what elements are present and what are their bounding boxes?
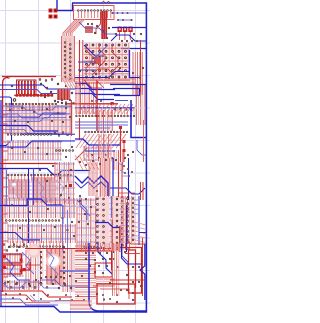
- wire blue y108: [75, 107, 135, 109]
- IC U1 pad row: [77, 9, 112, 11]
- IC U1 outline: [74, 6, 115, 20]
- pink diag into band: [61, 76, 78, 88]
- pads cluster x124-132: [123, 165, 133, 177]
- wire texture x75-95 y245-300: [75, 246, 96, 299]
- wire texture x96-114 y278-289: [96, 279, 114, 286]
- red patch x58-70: [57, 89, 70, 100]
- wire red y193 right: [118, 192, 135, 194]
- red loops right: [120, 248, 142, 294]
- red horiz y280 right: [110, 279, 145, 281]
- via double column: [64, 41, 66, 78]
- red angle bl: [22, 262, 30, 270]
- pin header matrix: [85, 44, 127, 79]
- via col x117: [116, 198, 118, 250]
- blue zigzag over band: [46, 250, 58, 282]
- wire blue bottom-left rail: [0, 307, 98, 313]
- wire red y248 mid: [25, 248, 112, 250]
- red thin y302: [0, 302, 50, 304]
- pink diagonals x75-95 y155-175: [75, 155, 99, 170]
- pads bottom band: [5, 293, 85, 301]
- red serpentines in matrix: [86, 44, 92, 75]
- U6 stubs: [76, 109, 134, 115]
- wire blue thin y20: [118, 19, 132, 21]
- wire blue thin x111: [111, 196, 113, 218]
- wire blue border bottom: [89, 243, 146, 311]
- via col x122: [121, 200, 123, 246]
- pad at rail corner: [7, 76, 9, 78]
- wire blue jog y34-40 right: [111, 35, 146, 41]
- weave field y105-134: [6, 105, 72, 134]
- IC U6 pad row y116: [75, 115, 135, 117]
- pink band with hole: [46, 248, 62, 285]
- wire blue vert x28: [28, 168, 30, 243]
- vias band y80-100: [11, 78, 73, 104]
- weave y224-243: [8, 224, 76, 243]
- vias under matrix: [79, 67, 144, 79]
- wire red vert x79-80: [79, 118, 81, 140]
- vias bottom left: [7, 275, 83, 287]
- vias in field: [9, 107, 71, 123]
- weave x55-75 y162-205: [55, 162, 75, 204]
- wire red thick right x140: [140, 40, 142, 92]
- wire blue y101 right: [115, 100, 128, 102]
- wire blue y144 jog: [75, 139, 121, 145]
- wire red y163: [0, 163, 58, 165]
- pink zone 2 texture: [33, 178, 52, 202]
- via col x97: [96, 198, 98, 250]
- blue jogs in field: [0, 106, 72, 110]
- wire blue zigzag bl: [6, 258, 30, 280]
- red weave in matrix: [84, 43, 130, 80]
- wire blue y84 right: [110, 84, 146, 86]
- via col x103: [102, 198, 104, 250]
- weave field y140-160: [8, 140, 62, 160]
- blue vert x137 bend: [137, 140, 146, 155]
- vias y146-160 right: [91, 151, 134, 159]
- wire blue x144 jog: [140, 244, 145, 300]
- wire blue band y85: [0, 85, 75, 89]
- blue thin verts x62 x67: [62, 205, 64, 250]
- wire blue y280 jog: [40, 280, 88, 286]
- U2 stubs down: [6, 105, 56, 111]
- wire blue y117: [0, 113, 66, 117]
- red fan right cols: [134, 222, 146, 243]
- wire blue vert x128: [128, 158, 130, 200]
- wire blue y143 jog: [0, 141, 75, 147]
- white hole in zone: [12, 183, 16, 187]
- wire blue y168 jog: [0, 169, 90, 175]
- wire texture x75-96 y198-250: [77, 198, 96, 250]
- wire blue rail y48: [121, 48, 146, 50]
- pink bundle into bottom right: [77, 243, 88, 252]
- pink h-thins y79-84: [75, 79, 135, 83]
- wire red verts x120 x124: [120, 128, 122, 162]
- vias bottom right: [96, 282, 142, 312]
- red square bl2: [23, 268, 26, 271]
- wire blue elbow y97: [0, 97, 12, 146]
- pale band x62-75: [61, 36, 75, 82]
- wire blue left rail: [0, 100, 2, 307]
- wire blue staircase y205: [0, 199, 62, 206]
- red box mid-bottom: [95, 263, 112, 277]
- via cluster below U1: [87, 23, 110, 34]
- pink zone left: [8, 179, 30, 200]
- wire red y295 step: [0, 295, 58, 301]
- pad row y247 mid: [83, 246, 102, 248]
- pad row y175: [7, 174, 72, 176]
- pink zone left texture: [9, 180, 28, 199]
- pad col x41: [40, 251, 42, 284]
- purple stubs right cols: [134, 200, 139, 214]
- pale strip B: [113, 197, 120, 249]
- wire blue vert x33: [33, 168, 35, 205]
- vias y200-244: [11, 204, 56, 231]
- pads right of row2: [54, 131, 69, 136]
- ladder pads bottom: [18, 94, 35, 96]
- red square x70 y185: [69, 184, 72, 187]
- pads y20 right: [117, 19, 133, 21]
- wire red y104: [66, 103, 118, 105]
- wire red vert x97: [96, 81, 98, 131]
- red box A: [3, 254, 22, 263]
- via row y13 right: [111, 12, 128, 14]
- wire bundle from U1 down-left: [63, 19, 85, 40]
- wire blue wave 2: [75, 182, 106, 188]
- wire texture x136-145 y85-125: [137, 85, 145, 125]
- stubs row y175: [8, 176, 71, 181]
- IC U1 stubs: [78, 12, 111, 18]
- wire red x71 vertical: [71, 100, 73, 136]
- pads trio y101: [91, 100, 102, 102]
- red bend bottom right cols: [128, 240, 147, 244]
- wire blue y188 right: [110, 188, 145, 194]
- wire blue y126 jog: [0, 126, 58, 132]
- wire red y300: [55, 300, 85, 302]
- blue diagonals left of U4: [77, 200, 87, 220]
- pads right of row1: [57, 99, 75, 104]
- wire red bundle x133-143: [133, 52, 142, 95]
- red square pads bl: [3, 255, 6, 258]
- red loop inner: [100, 289, 129, 299]
- wire texture x26-45 y250-286: [26, 250, 43, 286]
- stripes x98-112 y134-162: [99, 134, 111, 162]
- vias left of U4: [78, 200, 92, 225]
- component ladder RN1 frame: [17, 80, 37, 95]
- wire blue diag NE: [95, 45, 108, 58]
- pad row y246: [9, 245, 64, 247]
- mount hole ring: [46, 254, 61, 269]
- wire red y291 step: [0, 291, 72, 297]
- pale disc: [27, 244, 41, 258]
- wire red x142 low: [142, 238, 144, 296]
- wire red top of block: [2, 76, 56, 78]
- wire blue staircase br: [98, 243, 112, 274]
- mount hole: [48, 256, 59, 267]
- red line through squares: [14, 94, 53, 96]
- ladder bars: [19, 81, 35, 94]
- wire blue bus jogs: [75, 84, 115, 90]
- pale strip A: [100, 197, 110, 249]
- wire blue band y89: [0, 90, 70, 94]
- red loop bottom right: [97, 284, 135, 304]
- pad row y220: [5, 219, 60, 221]
- blue thins bottom band: [0, 299, 58, 305]
- via col x133 right: [132, 197, 134, 241]
- blue thin hooks: [118, 163, 129, 176]
- wire blue y232 right short: [139, 232, 146, 234]
- square pad row y95: [16, 94, 54, 97]
- wire red x120 low: [119, 226, 121, 252]
- wire blue loop right: [113, 89, 140, 96]
- red fan above row y116: [78, 104, 137, 114]
- stripes x99-113 y107-131: [99, 110, 112, 131]
- red horiz y253 right: [125, 253, 140, 255]
- wire blue thin zig y285: [3, 282, 58, 288]
- wire blue diag right of band: [84, 45, 104, 56]
- wire blue y271: [60, 270, 88, 272]
- component R block top-right: [118, 27, 122, 33]
- red square pad: [111, 102, 114, 105]
- wire texture x96-130 y196-250: [96, 196, 130, 250]
- wire blue y223 jog: [95, 223, 120, 228]
- pads scatter y283-289: [4, 282, 72, 289]
- vias row under hole: [45, 276, 62, 278]
- pads on rail: [102, 1, 109, 3]
- wire blue thin x6: [6, 170, 8, 205]
- pads x60-75 y215-240: [61, 217, 75, 237]
- red drops from U1 pads right: [102, 11, 106, 39]
- pink band x123-136: [123, 196, 134, 243]
- pink bundle x88-98: [89, 162, 97, 196]
- wire red y265 bl: [25, 264, 40, 266]
- connector J1 pads: [49, 9, 53, 13]
- wire red verts x118-122 lower: [118, 162, 120, 198]
- band edge lines: [61, 36, 63, 82]
- wire blue x122 diag: [122, 243, 128, 268]
- blue diag thins in zones: [36, 180, 48, 202]
- red drops below R block: [120, 32, 131, 40]
- via col x127: [126, 198, 128, 250]
- wire texture x76-96 y81-114: [76, 82, 96, 114]
- blue thins y122-127: [75, 121, 128, 123]
- IC U7 pad row y132: [84, 131, 128, 133]
- wire blue vert x126: [126, 205, 128, 252]
- wire red y286 right: [93, 285, 114, 287]
- red square pads right: [119, 126, 122, 129]
- weave x96-122 y243-252: [96, 243, 120, 251]
- wire red verticals x79-83: [79, 40, 81, 86]
- red patch below U1: [85, 26, 93, 33]
- wire blue y151: [85, 150, 115, 152]
- via matrix bottom mid: [85, 252, 111, 274]
- pink band texture: [47, 249, 60, 284]
- wire blue wave right: [75, 176, 108, 196]
- pale band x99-111: [99, 158, 111, 196]
- red box B: [3, 265, 22, 274]
- wire blue vert x113: [112, 158, 114, 196]
- pink zone 2: [32, 177, 54, 203]
- wire blue y77 under matrix: [75, 72, 129, 78]
- pads U5 area: [113, 251, 140, 294]
- wire red left rail: [3, 78, 8, 293]
- left rail stubs: [3, 106, 9, 286]
- ladder pads top: [18, 80, 35, 82]
- wire blue thin y13: [112, 12, 146, 14]
- open via: [13, 99, 16, 102]
- wire red x112 low: [111, 220, 113, 250]
- pad at red y104 end: [65, 103, 67, 105]
- pink band x76-80: [76, 81, 80, 114]
- wire blue thick x131 elbow: [131, 100, 146, 138]
- wire blue vert x129: [130, 50, 142, 78]
- vias right band: [79, 157, 126, 200]
- wire blue vert x139: [138, 196, 140, 245]
- pad cluster bl top: [3, 243, 25, 251]
- wire red pair x140-143: [140, 182, 142, 200]
- wire blue y232 left: [0, 233, 40, 241]
- weave y198-218: [5, 198, 76, 218]
- red elbow bottom right: [75, 251, 112, 270]
- wire blue segs x78-95: [78, 61, 96, 63]
- stubs row y246 up: [10, 241, 63, 246]
- red patch stripes: [59, 89, 68, 100]
- vias y146-158: [11, 146, 73, 158]
- red elbows below matrix: [84, 80, 102, 88]
- wire texture x114-124 y150-170: [114, 150, 123, 170]
- vias band y165-200: [39, 165, 72, 199]
- IC U2 pad row 2: [7, 133, 52, 135]
- via col x127 right: [126, 197, 128, 241]
- wire texture x5-24 y253-277: [5, 253, 24, 277]
- wire blue top rail: [72, 3, 146, 312]
- pads right y150: [55, 149, 74, 151]
- vias right top: [106, 33, 142, 42]
- hweave bottom x70-92: [70, 301, 92, 309]
- via row y109: [114, 108, 132, 110]
- matrix background tint: [84, 42, 130, 76]
- pads in red loop: [102, 294, 118, 300]
- weave x112-119 y244-298: [113, 244, 119, 296]
- wire blue y27 right: [112, 27, 146, 29]
- wire blue y134: [20, 133, 75, 135]
- IC U2 pad row 1: [5, 103, 57, 105]
- weave bottom-left x5-40 y280-290: [5, 280, 40, 290]
- wire blue jog below U1: [79, 22, 117, 34]
- wire blue x63 vertical: [62, 205, 64, 252]
- wire blue top entry: [57, 0, 73, 11]
- red diag bottom-left of block: [75, 148, 87, 160]
- blue h-thins over zones: [8, 182, 60, 198]
- wire texture x84-112 y146-161: [84, 146, 112, 161]
- red thin x143: [143, 120, 145, 162]
- red patch in matrix: [94, 57, 101, 64]
- pad col x64: [63, 246, 65, 285]
- red fan below row y132: [76, 134, 126, 148]
- wire blue x121 low: [122, 244, 142, 264]
- wire texture x63-75 y248-292: [63, 248, 74, 292]
- red drop diag: [96, 12, 101, 34]
